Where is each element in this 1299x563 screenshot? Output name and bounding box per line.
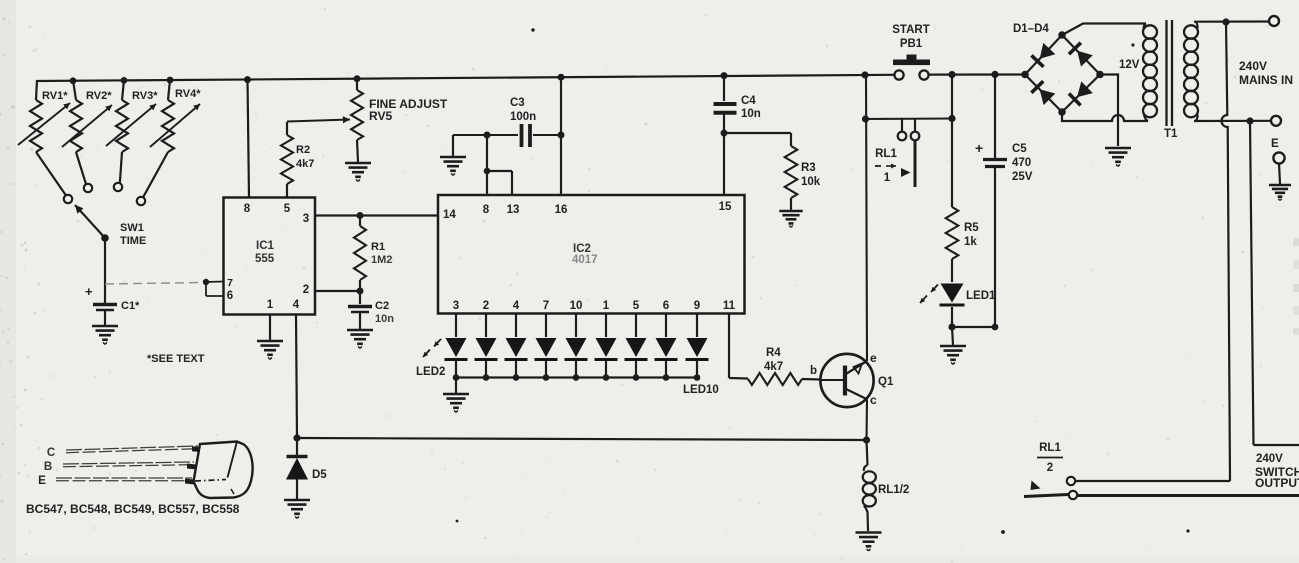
svg-text:5: 5	[284, 203, 291, 215]
svg-text:D5: D5	[312, 469, 327, 481]
svg-text:240V: 240V	[1256, 453, 1283, 465]
svg-text:TIME: TIME	[120, 235, 146, 247]
svg-text:IC1: IC1	[256, 240, 275, 252]
svg-text:RL1: RL1	[875, 148, 897, 160]
svg-text:R3: R3	[801, 162, 816, 174]
svg-text:BC547, BC548, BC549, BC557, BC: BC547, BC548, BC549, BC557, BC558	[26, 502, 240, 516]
svg-text:4k7: 4k7	[764, 361, 783, 373]
svg-text:C2: C2	[375, 300, 389, 312]
svg-text:14: 14	[443, 209, 456, 221]
svg-text:RL1/2: RL1/2	[878, 484, 909, 496]
svg-text:4: 4	[293, 299, 300, 311]
svg-text:C1*: C1*	[121, 300, 140, 312]
svg-text:6: 6	[227, 290, 233, 302]
svg-text:555: 555	[255, 253, 275, 265]
svg-text:R2: R2	[296, 144, 310, 156]
svg-text:3: 3	[303, 213, 309, 225]
svg-text:3: 3	[453, 300, 459, 312]
svg-text:RV4*: RV4*	[175, 88, 201, 100]
svg-text:R5: R5	[964, 222, 979, 234]
svg-text:7: 7	[227, 277, 233, 289]
svg-text:+: +	[85, 284, 93, 299]
svg-text:12V: 12V	[1119, 59, 1140, 71]
svg-text:1: 1	[603, 300, 610, 312]
svg-text:R4: R4	[766, 347, 781, 359]
svg-text:PB1: PB1	[900, 38, 923, 50]
svg-text:+: +	[975, 140, 983, 156]
svg-text:MAINS IN: MAINS IN	[1239, 73, 1293, 87]
svg-text:2: 2	[1047, 462, 1053, 474]
svg-text:6: 6	[663, 300, 669, 312]
svg-text:1: 1	[884, 172, 891, 184]
svg-text:R1: R1	[371, 241, 385, 253]
svg-text:2: 2	[303, 284, 309, 296]
svg-text:C4: C4	[741, 95, 756, 107]
svg-text:START: START	[892, 24, 929, 36]
svg-text:8: 8	[244, 203, 251, 215]
svg-text:LED2: LED2	[416, 366, 445, 378]
svg-text:RL1: RL1	[1039, 442, 1061, 454]
svg-text:11: 11	[723, 300, 736, 312]
svg-text:E: E	[38, 475, 46, 487]
svg-text:Q1: Q1	[878, 376, 894, 388]
svg-text:4k7: 4k7	[296, 158, 314, 170]
svg-text:D1–D4: D1–D4	[1013, 23, 1049, 35]
svg-text:C: C	[47, 447, 55, 459]
svg-text:1k: 1k	[964, 236, 977, 248]
svg-text:470: 470	[1012, 157, 1031, 169]
svg-text:T1: T1	[1164, 128, 1178, 140]
svg-text:240V: 240V	[1239, 59, 1267, 73]
svg-text:LED10: LED10	[683, 384, 719, 396]
svg-text:B: B	[44, 461, 52, 473]
svg-text:10k: 10k	[801, 176, 821, 188]
svg-text:5: 5	[633, 300, 640, 312]
svg-text:10n: 10n	[375, 313, 394, 325]
svg-text:C3: C3	[510, 97, 525, 109]
svg-text:8: 8	[483, 204, 490, 216]
svg-text:15: 15	[719, 201, 732, 213]
svg-text:1: 1	[267, 299, 274, 311]
svg-text:C5: C5	[1012, 143, 1027, 155]
svg-text:RV5: RV5	[369, 109, 392, 123]
svg-text:2: 2	[483, 300, 489, 312]
svg-text:RV1*: RV1*	[42, 90, 68, 102]
svg-text:c: c	[870, 393, 877, 407]
svg-text:10n: 10n	[741, 108, 761, 120]
svg-text:9: 9	[694, 300, 700, 312]
svg-text:e: e	[870, 351, 877, 365]
svg-text:100n: 100n	[510, 111, 536, 123]
svg-text:RV3*: RV3*	[132, 90, 158, 102]
svg-text:4: 4	[513, 300, 520, 312]
svg-text:RV2*: RV2*	[86, 90, 112, 102]
svg-text:4017: 4017	[572, 254, 598, 266]
svg-text:*SEE TEXT: *SEE TEXT	[147, 353, 205, 365]
svg-text:E: E	[1271, 138, 1279, 150]
svg-text:16: 16	[555, 204, 568, 216]
svg-text:b: b	[810, 365, 817, 377]
svg-text:SW1: SW1	[120, 222, 144, 234]
svg-text:10: 10	[570, 300, 583, 312]
svg-text:7: 7	[543, 300, 549, 312]
svg-text:1M2: 1M2	[371, 254, 392, 266]
svg-text:LED1: LED1	[966, 290, 996, 302]
svg-text:13: 13	[507, 204, 520, 216]
svg-text:25V: 25V	[1012, 171, 1033, 183]
svg-text:OUTPUT: OUTPUT	[1255, 476, 1299, 490]
